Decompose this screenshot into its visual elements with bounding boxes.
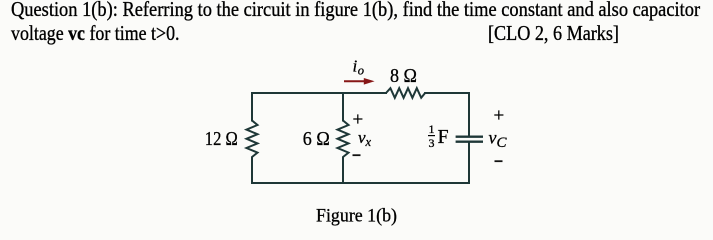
- minus sign vc: [495, 160, 503, 162]
- question text line 2: [11, 23, 179, 44]
- current arrow io: [344, 78, 375, 85]
- question text line 1: [11, 0, 700, 20]
- wire bottom: [252, 182, 469, 184]
- capacitor C top plate: [457, 135, 482, 137]
- wire right branch upper: [468, 93, 470, 135]
- wire left branch lower: [251, 157, 253, 183]
- svg-text:8 Ω: 8 Ω: [390, 65, 417, 87]
- svg-text:12 Ω: 12 Ω: [205, 128, 238, 150]
- svg-text:vC: vC: [489, 128, 508, 152]
- wire top left segment: [252, 92, 386, 94]
- resistor 12ohm zigzag: [247, 121, 258, 158]
- marks note: [488, 23, 619, 44]
- label 1/3 F: [428, 122, 449, 150]
- wire right branch lower: [468, 143, 470, 183]
- minus sign vx: [353, 154, 361, 156]
- svg-text:3: 3: [429, 136, 435, 150]
- svg-text:6 Ω: 6 Ω: [303, 128, 330, 150]
- wire middle branch upper: [342, 93, 344, 121]
- svg-text:Figure 1(b): Figure 1(b): [316, 206, 397, 227]
- svg-text:io: io: [353, 57, 364, 78]
- svg-text:1: 1: [429, 122, 435, 136]
- svg-text:F: F: [438, 126, 449, 148]
- svg-text:+: +: [494, 106, 505, 127]
- resistor 8ohm zigzag: [386, 88, 425, 98]
- wire top right segment: [425, 92, 469, 94]
- wire left branch upper: [251, 93, 253, 121]
- svg-text:vx: vx: [358, 128, 372, 149]
- capacitor C bottom plate: [457, 140, 482, 142]
- resistor 6ohm zigzag: [338, 121, 349, 158]
- wire middle branch lower: [342, 157, 344, 183]
